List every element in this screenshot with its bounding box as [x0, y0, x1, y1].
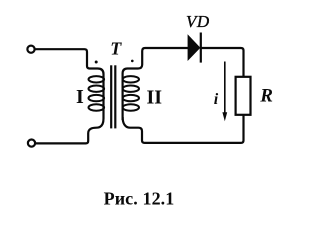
svg-text:T: T: [110, 39, 122, 59]
svg-text:i: i: [214, 91, 219, 108]
svg-text:Рис. 12.1: Рис. 12.1: [104, 188, 175, 208]
svg-text:VD: VD: [186, 12, 210, 31]
svg-text:I: I: [76, 86, 84, 108]
svg-text:R: R: [259, 86, 273, 107]
svg-text:II: II: [147, 86, 163, 108]
